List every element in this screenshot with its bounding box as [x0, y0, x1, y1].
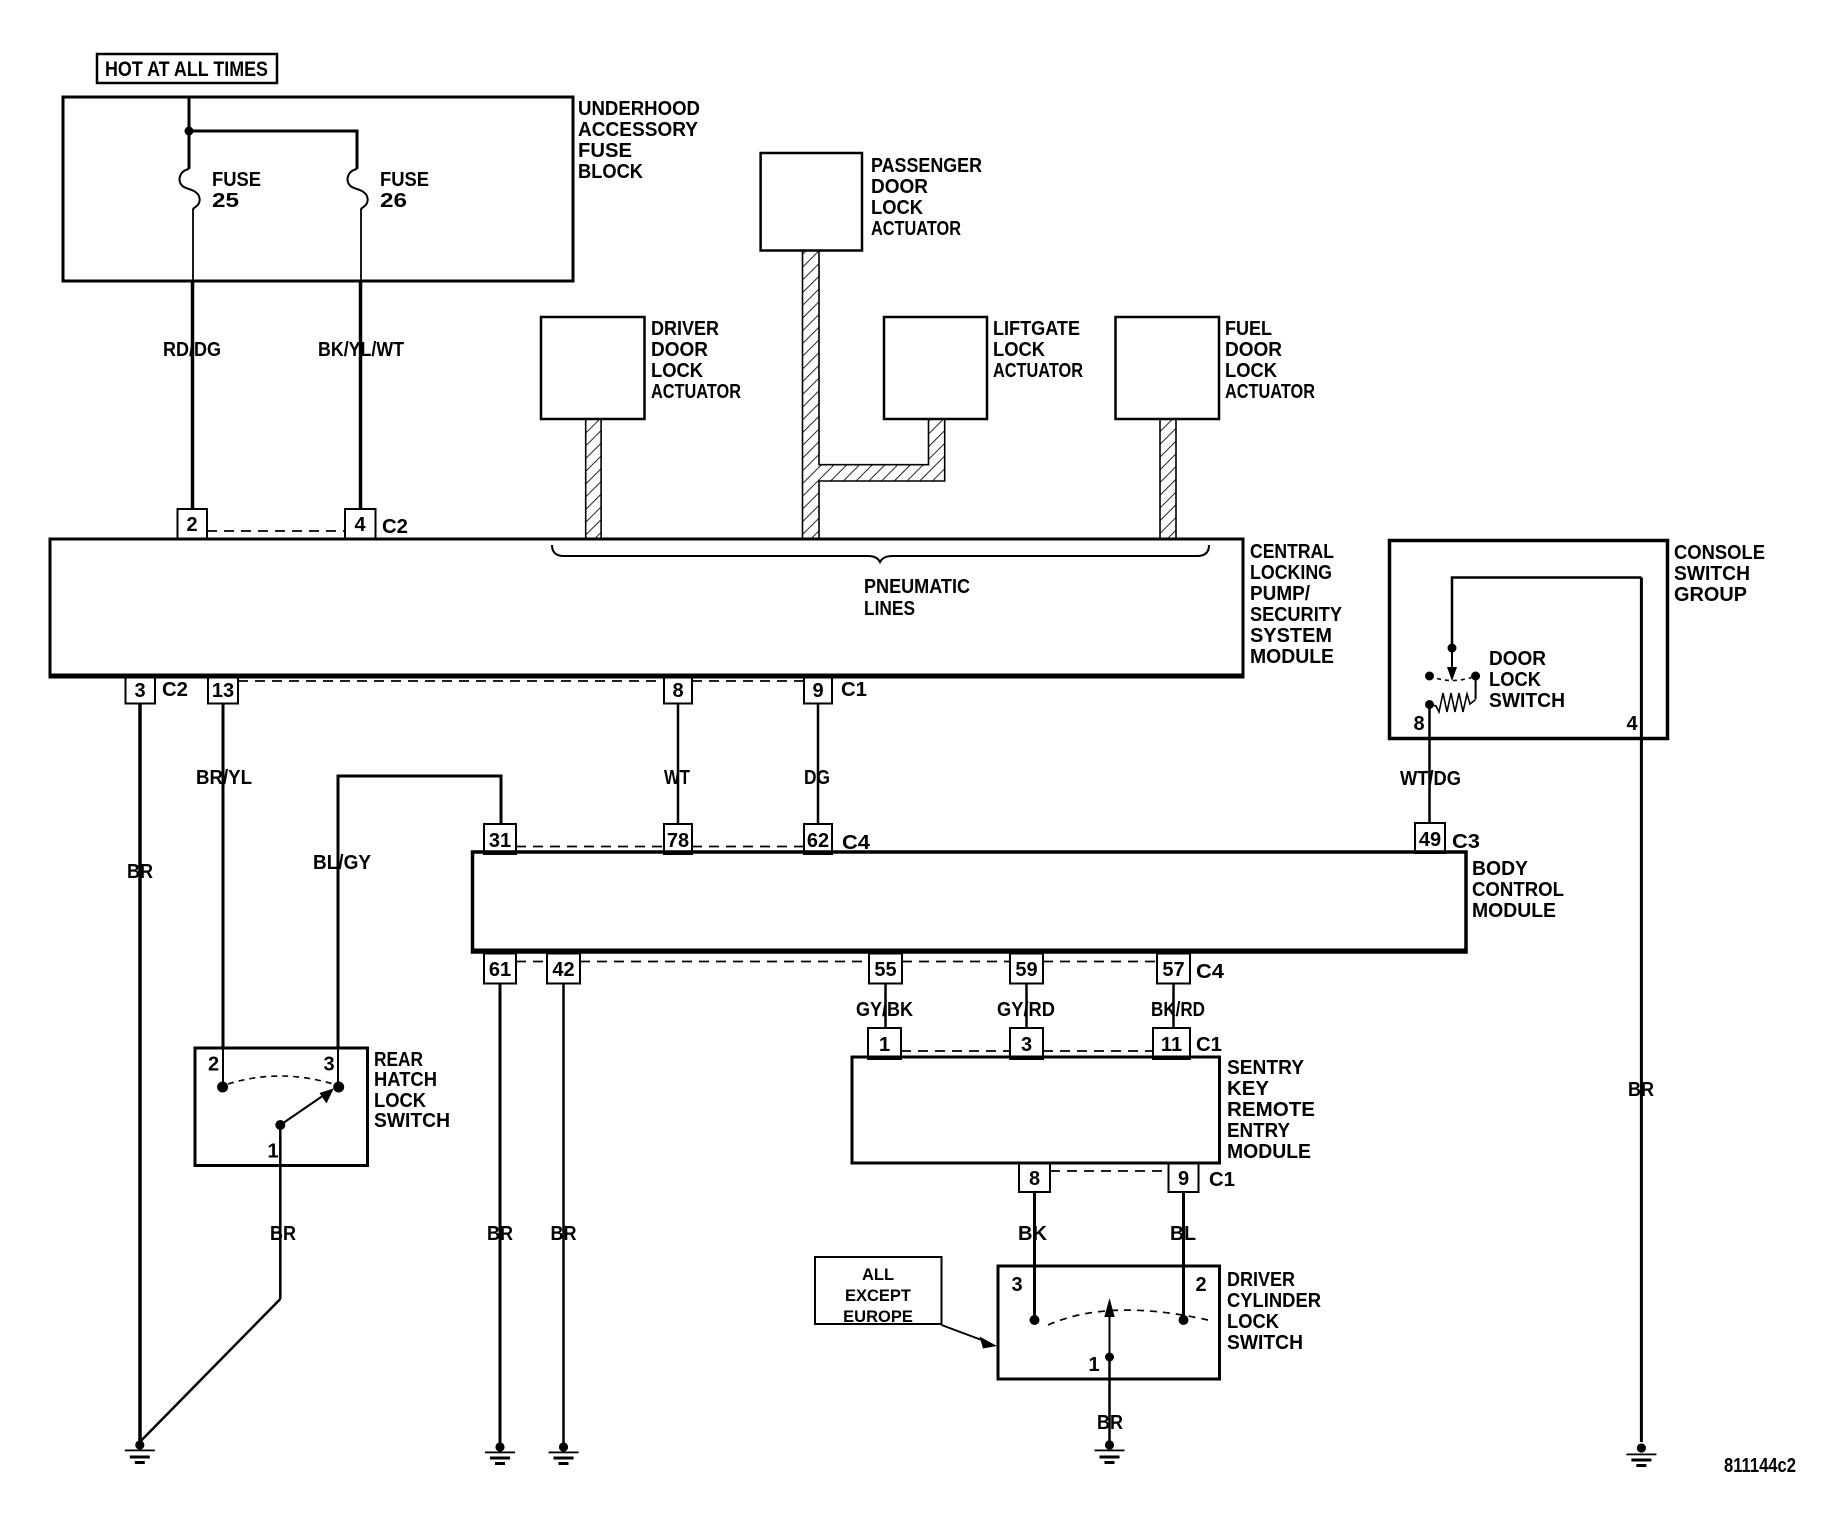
- ground G2: [485, 1442, 515, 1465]
- wire GY/RD pin59 to sentry 3: [997, 984, 1055, 1029]
- sentry key remote entry module U3: [852, 1057, 1315, 1163]
- svg-text:BK/YL/WT: BK/YL/WT: [318, 339, 404, 361]
- wire BR/YL pin13 down to rear hatch switch: [196, 704, 252, 1049]
- svg-text:LOCKING: LOCKING: [1250, 562, 1332, 584]
- svg-text:HOT AT ALL TIMES: HOT AT ALL TIMES: [105, 58, 268, 81]
- svg-text:CENTRAL: CENTRAL: [1250, 541, 1334, 563]
- rear hatch lock switch S3: [195, 1048, 450, 1166]
- svg-text:DOOR: DOOR: [1489, 648, 1547, 670]
- svg-text:LOCK: LOCK: [374, 1090, 427, 1112]
- wire console pin 4 down right side: [1640, 578, 1643, 1443]
- svg-text:DRIVER: DRIVER: [651, 318, 719, 340]
- pin 62 connector C4 on BCM: [804, 824, 871, 854]
- svg-text:13: 13: [212, 680, 234, 702]
- svg-text:C2: C2: [162, 679, 188, 701]
- svg-text:C1: C1: [1196, 1034, 1222, 1056]
- svg-text:SWITCH: SWITCH: [374, 1110, 450, 1132]
- svg-text:42: 42: [552, 959, 574, 981]
- svg-text:MODULE: MODULE: [1472, 900, 1556, 922]
- svg-text:LINES: LINES: [864, 598, 915, 620]
- svg-text:ALL: ALL: [862, 1266, 894, 1284]
- svg-text:8: 8: [672, 680, 683, 702]
- svg-text:2: 2: [186, 514, 197, 536]
- svg-text:LOCK: LOCK: [993, 339, 1046, 361]
- node pneumatic lines brace: [552, 545, 1209, 620]
- fuel door lock actuator: [1116, 317, 1316, 419]
- liftgate lock actuator: [884, 317, 1083, 419]
- svg-text:BR: BR: [551, 1223, 577, 1245]
- svg-text:SECURITY: SECURITY: [1250, 604, 1343, 626]
- console switch group: [1390, 541, 1766, 739]
- svg-text:BODY: BODY: [1472, 858, 1529, 880]
- svg-text:59: 59: [1015, 959, 1037, 981]
- wire dashed link 78-62: [692, 846, 804, 848]
- svg-text:MODULE: MODULE: [1227, 1141, 1311, 1163]
- svg-text:CONTROL: CONTROL: [1472, 879, 1564, 901]
- wire junction down to fuse 25: [188, 131, 191, 169]
- pin 9 connector C1 on sentry bottom: [1169, 1163, 1236, 1192]
- svg-text:2: 2: [208, 1054, 219, 1076]
- svg-text:55: 55: [874, 959, 896, 981]
- wire BR pin42 to ground: [551, 984, 577, 1444]
- svg-text:DOOR: DOOR: [871, 176, 929, 198]
- pin 59 connector on BCM bottom: [1010, 954, 1043, 984]
- pin 55 connector on BCM bottom: [869, 954, 902, 984]
- svg-text:EUROPE: EUROPE: [843, 1308, 913, 1326]
- pin 8 connector on sentry bottom: [1019, 1163, 1050, 1192]
- pin 4 connector C2: [345, 509, 408, 539]
- svg-text:MODULE: MODULE: [1250, 646, 1334, 668]
- ground G4: [1095, 1440, 1125, 1464]
- svg-text:HATCH: HATCH: [374, 1069, 437, 1091]
- driver door lock actuator: [541, 317, 741, 419]
- wire BL sentry 9 to cyl switch 2: [1170, 1192, 1196, 1318]
- svg-text:RD/DG: RD/DG: [163, 339, 221, 361]
- wire dashed link 55-59: [902, 961, 1010, 963]
- svg-text:SWITCH: SWITCH: [1489, 690, 1565, 712]
- svg-text:BL: BL: [1170, 1223, 1196, 1245]
- svg-text:LOCK: LOCK: [651, 360, 704, 382]
- svg-text:LOCK: LOCK: [1489, 669, 1542, 691]
- svg-text:BR: BR: [1628, 1079, 1654, 1101]
- svg-text:CYLINDER: CYLINDER: [1227, 1290, 1322, 1312]
- svg-text:FUSE: FUSE: [578, 140, 632, 162]
- ground G3: [549, 1442, 579, 1465]
- svg-text:1: 1: [879, 1034, 890, 1056]
- wire console inner feed: [1452, 578, 1641, 649]
- wire dashed connector link 2-4: [207, 530, 345, 532]
- svg-text:DG: DG: [804, 767, 830, 789]
- svg-text:BR: BR: [1097, 1412, 1123, 1434]
- svg-text:BK/RD: BK/RD: [1151, 999, 1205, 1021]
- svg-text:DOOR: DOOR: [651, 339, 709, 361]
- svg-text:C2: C2: [382, 516, 408, 538]
- svg-text:PNEUMATIC: PNEUMATIC: [864, 576, 970, 598]
- svg-text:C1: C1: [841, 679, 867, 701]
- svg-text:SYSTEM: SYSTEM: [1250, 625, 1332, 647]
- svg-text:ACCESSORY: ACCESSORY: [578, 119, 699, 141]
- door lock switch S1: [1413, 644, 1638, 736]
- wire dashed link 13-8: [238, 680, 664, 682]
- wire BL/GY elbow to BCM pin 31 and rear hatch switch: [313, 776, 501, 1048]
- svg-text:3: 3: [134, 680, 145, 702]
- wire dashed link 8-9: [692, 680, 804, 682]
- svg-text:61: 61: [489, 959, 511, 981]
- wire WT pin8 down to BCM 78: [664, 704, 690, 825]
- svg-text:WT: WT: [664, 767, 690, 789]
- ground G1: [125, 1440, 155, 1464]
- pin 3 connector on sentry module: [1010, 1028, 1043, 1059]
- svg-text:LOCK: LOCK: [1227, 1311, 1280, 1333]
- svg-text:ENTRY: ENTRY: [1227, 1120, 1291, 1142]
- fuse F26: [348, 169, 429, 212]
- svg-text:FUSE: FUSE: [212, 169, 261, 191]
- svg-text:62: 62: [807, 830, 829, 852]
- wire BR cyl switch 1 to ground: [1097, 1357, 1123, 1441]
- wire dashed link 61-42: [516, 961, 547, 963]
- svg-text:ACTUATOR: ACTUATOR: [1225, 381, 1315, 403]
- svg-text:BR/YL: BR/YL: [196, 767, 252, 789]
- pin 8 connector on module: [664, 675, 692, 704]
- wire BR pin3 down to ground: [127, 704, 153, 1443]
- pneumatic tube driver actuator: [586, 419, 601, 539]
- svg-text:26: 26: [380, 190, 407, 212]
- pin 61 connector on BCM bottom: [484, 954, 516, 984]
- svg-text:GY/RD: GY/RD: [997, 999, 1055, 1021]
- pin 11 connector C1 on sentry module: [1153, 1028, 1222, 1059]
- body control module U2: [471, 852, 1564, 952]
- pin 1 connector on sentry module: [868, 1028, 901, 1059]
- svg-text:25: 25: [212, 190, 239, 212]
- svg-text:FUEL: FUEL: [1225, 318, 1272, 340]
- svg-text:3: 3: [1011, 1274, 1022, 1296]
- svg-text:GY/BK: GY/BK: [856, 999, 913, 1021]
- svg-text:KEY: KEY: [1227, 1078, 1270, 1100]
- svg-text:ACTUATOR: ACTUATOR: [993, 360, 1083, 382]
- wire BR rear hatch 1 to ground: [140, 1125, 297, 1442]
- svg-text:4: 4: [1626, 713, 1638, 735]
- svg-text:DOOR: DOOR: [1225, 339, 1283, 361]
- underhood accessory fuse block: [63, 97, 700, 281]
- pneumatic tube fuel actuator: [1160, 419, 1176, 539]
- svg-text:ACTUATOR: ACTUATOR: [651, 381, 741, 403]
- passenger door lock actuator: [761, 153, 983, 251]
- svg-text:DRIVER: DRIVER: [1227, 1269, 1295, 1291]
- svg-text:EXCEPT: EXCEPT: [845, 1287, 911, 1305]
- pin 49 connector C3 on BCM: [1415, 823, 1480, 853]
- svg-text:CONSOLE: CONSOLE: [1674, 542, 1765, 564]
- svg-text:57: 57: [1162, 959, 1184, 981]
- svg-text:9: 9: [1178, 1168, 1189, 1190]
- svg-text:REMOTE: REMOTE: [1227, 1099, 1315, 1121]
- pin 2 connector C2: [178, 509, 208, 539]
- central locking pump/security system module U1: [49, 539, 1343, 677]
- driver cylinder lock switch S2: [998, 1266, 1322, 1379]
- wire DG pin9 down to BCM 62: [804, 704, 830, 825]
- pin 42 connector on BCM bottom: [547, 954, 580, 984]
- pin 9 connector C1 on module: [804, 675, 867, 704]
- svg-text:LOCK: LOCK: [1225, 360, 1278, 382]
- svg-text:LOCK: LOCK: [871, 197, 924, 219]
- svg-text:LIFTGATE: LIFTGATE: [993, 318, 1080, 340]
- svg-text:8: 8: [1413, 713, 1424, 735]
- svg-text:C4: C4: [1196, 961, 1225, 983]
- svg-text:1: 1: [1088, 1354, 1099, 1376]
- svg-text:BL/GY: BL/GY: [313, 852, 372, 874]
- svg-text:BR: BR: [487, 1223, 513, 1245]
- svg-text:UNDERHOOD: UNDERHOOD: [578, 98, 700, 120]
- wire dashed link 42-55: [580, 961, 869, 963]
- svg-text:SWITCH: SWITCH: [1674, 563, 1750, 585]
- fuse F25: [180, 169, 261, 212]
- svg-text:C3: C3: [1452, 831, 1480, 853]
- svg-text:49: 49: [1419, 829, 1441, 851]
- wire GY/BK pin55 to sentry 1: [856, 984, 913, 1029]
- wire WT/DG console to BCM 49: [1400, 705, 1461, 824]
- pin 13 connector on module: [208, 675, 238, 704]
- svg-text:C1: C1: [1209, 1169, 1235, 1191]
- pin 57 connector C4 on BCM bottom: [1157, 954, 1225, 984]
- wire junction to fuse 26 branch: [189, 131, 357, 169]
- svg-text:11: 11: [1161, 1034, 1182, 1056]
- svg-text:BR: BR: [270, 1223, 296, 1245]
- svg-text:GROUP: GROUP: [1674, 584, 1747, 606]
- pin 78 connector on BCM: [664, 824, 692, 854]
- svg-text:4: 4: [354, 514, 366, 536]
- node junction dot: [185, 127, 194, 136]
- svg-text:SENTRY: SENTRY: [1227, 1057, 1305, 1079]
- svg-text:3: 3: [323, 1054, 334, 1076]
- svg-text:SWITCH: SWITCH: [1227, 1332, 1303, 1354]
- wire BR pin61 to ground: [487, 984, 513, 1444]
- ground G5: [1626, 1443, 1656, 1467]
- svg-text:BK: BK: [1018, 1223, 1048, 1245]
- svg-text:2: 2: [1195, 1274, 1206, 1296]
- node ALL EXCEPT EUROPE tag: [815, 1257, 997, 1349]
- svg-text:8: 8: [1029, 1168, 1040, 1190]
- wire BK/RD pin57 to sentry 11: [1151, 984, 1205, 1029]
- svg-text:ACTUATOR: ACTUATOR: [871, 218, 961, 240]
- wire from fuse block top to junction: [188, 98, 191, 131]
- svg-text:BR: BR: [127, 861, 153, 883]
- svg-text:PASSENGER: PASSENGER: [871, 155, 982, 177]
- svg-text:1: 1: [267, 1141, 278, 1163]
- svg-text:FUSE: FUSE: [380, 169, 429, 191]
- wire dashed link 3-11: [1043, 1050, 1153, 1052]
- wire dashed link 1-3: [901, 1050, 1010, 1052]
- wire fuse 26 lower lead: [360, 210, 362, 281]
- pin 3 connector C2 on module: [126, 675, 189, 704]
- svg-text:3: 3: [1021, 1034, 1032, 1056]
- wire BK sentry 8 to cyl switch 3: [1018, 1192, 1048, 1318]
- svg-text:C4: C4: [842, 832, 871, 854]
- wire RD/DG fuse block to pin 2: [163, 281, 221, 509]
- svg-text:78: 78: [667, 830, 689, 852]
- wire fuse 25 lower lead: [192, 210, 194, 281]
- pneumatic tube passenger + liftgate union: [803, 251, 945, 540]
- wire dashed link 59-57: [1043, 961, 1157, 963]
- wire BK/YL/WT fuse block to pin 4: [318, 281, 404, 509]
- wire dashed link 8-9 sentry: [1050, 1170, 1169, 1172]
- svg-text:9: 9: [812, 680, 823, 702]
- pin 31 connector on BCM: [484, 824, 516, 854]
- svg-text:REAR: REAR: [374, 1049, 423, 1071]
- svg-text:BLOCK: BLOCK: [578, 161, 644, 183]
- svg-text:31: 31: [489, 830, 511, 852]
- svg-text:WT/DG: WT/DG: [1400, 768, 1461, 790]
- node HOT AT ALL TIMES label: [97, 54, 277, 83]
- wire dashed link 31-78: [516, 846, 664, 848]
- svg-text:811144c2: 811144c2: [1724, 1455, 1796, 1477]
- svg-text:PUMP/: PUMP/: [1250, 583, 1310, 605]
